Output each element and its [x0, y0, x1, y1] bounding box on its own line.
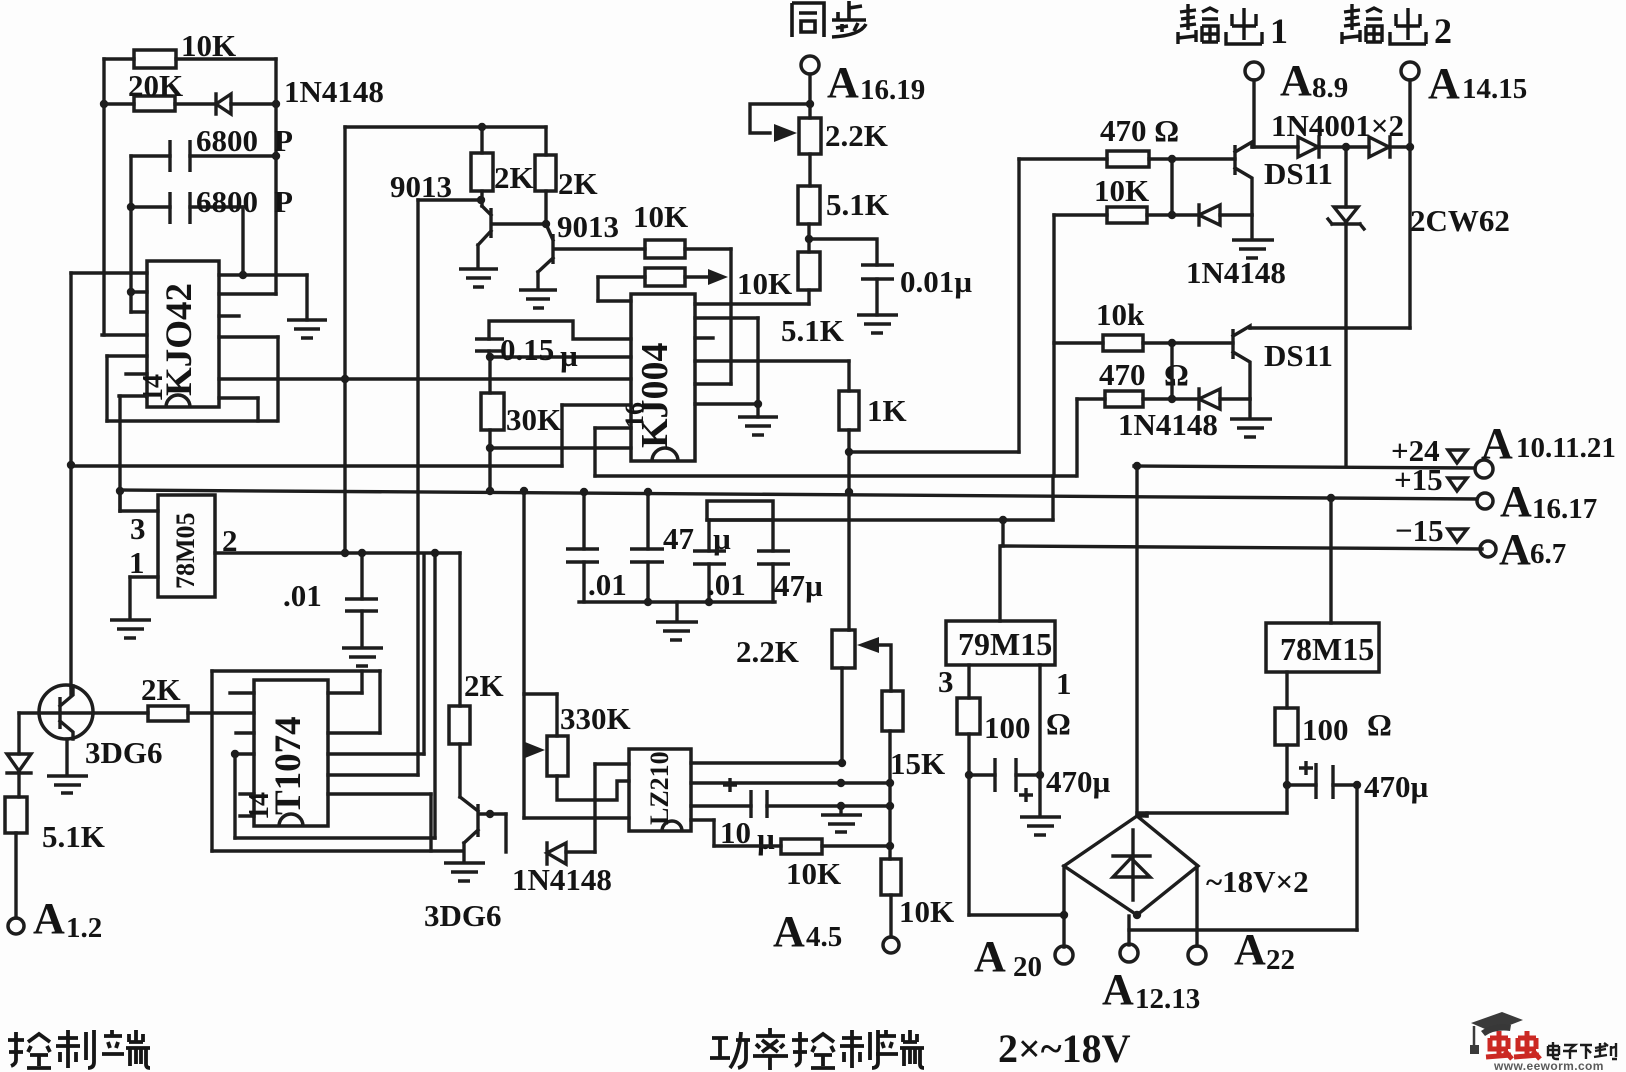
bus +15V	[120, 487, 1477, 502]
svg-text:1N4148: 1N4148	[284, 74, 384, 109]
IC U7 78M15	[1266, 499, 1379, 672]
resistor R13 15K	[882, 691, 945, 859]
svg-text:9013: 9013	[557, 209, 619, 244]
svg-text:1N4148: 1N4148	[1118, 407, 1218, 442]
label power control terminal	[710, 1028, 924, 1070]
transistor Q3 3DG6	[19, 685, 163, 775]
svg-text:DS11: DS11	[1264, 156, 1333, 191]
wire corner x1053 to row y520	[707, 476, 1053, 520]
svg-text:0.15: 0.15	[500, 332, 554, 367]
terminal sync A16.19	[801, 56, 925, 118]
svg-text:5.1K: 5.1K	[781, 313, 844, 348]
diode D2 base	[7, 713, 31, 797]
wire 78M05 pin3	[120, 491, 158, 546]
svg-text:15K: 15K	[890, 746, 945, 781]
wire cluster bottom rail	[579, 598, 775, 621]
ground LZ210 row	[821, 806, 862, 832]
ground KJ042 right	[287, 320, 327, 338]
diode D8 1N4148	[1118, 389, 1250, 442]
resistor R15 10K	[781, 839, 894, 891]
svg-text:5.1K: 5.1K	[826, 187, 889, 222]
svg-text:1: 1	[129, 545, 145, 580]
svg-text:78M15: 78M15	[1280, 631, 1374, 667]
svg-text:10K: 10K	[633, 199, 688, 234]
svg-text:A: A	[1499, 525, 1531, 574]
wire KJ042 pin row y275 right with ground stem	[219, 271, 307, 320]
svg-text:14.15: 14.15	[1462, 73, 1527, 105]
svg-text:A: A	[1428, 59, 1460, 108]
capacitor C12 470u	[1287, 761, 1429, 804]
svg-text:LZ210: LZ210	[645, 751, 674, 825]
svg-text:78M05: 78M05	[171, 512, 200, 589]
svg-text:A: A	[1500, 477, 1532, 526]
resistor R1 10K	[134, 28, 236, 68]
wire T1074 right pin y733	[328, 671, 380, 733]
svg-text:2K: 2K	[464, 668, 504, 703]
resistor R24 100	[938, 664, 1071, 779]
IC U1 KJ042	[138, 261, 219, 407]
resistor R7 5.1K	[798, 154, 889, 224]
wire KJ042 under-loop y421	[107, 419, 276, 422]
svg-text:10K: 10K	[786, 856, 841, 891]
potentiometer RP3 330K	[525, 694, 631, 800]
terminal A1.2	[8, 894, 102, 944]
wire T1074 right pin y794	[328, 794, 431, 851]
wire collector row y147	[1252, 145, 1298, 148]
wire KJ004 right pin y304 to 10K vertical	[695, 302, 809, 305]
svg-text:20K: 20K	[128, 68, 183, 103]
wire x435 down to T1074 bottom loop	[433, 553, 436, 838]
node x345 crossing KJ042-KJ004 line	[341, 375, 349, 383]
svg-text:0.01µ: 0.01µ	[900, 264, 972, 299]
resistor R23 470	[1077, 343, 1199, 407]
wire x524 branch	[524, 491, 629, 818]
ground KJ004 right	[738, 417, 778, 435]
wire x460 down to 2K	[458, 553, 461, 706]
wire Z step to -15	[999, 516, 1007, 546]
zener D7 2CW62	[1328, 147, 1510, 466]
label control terminal	[8, 1030, 150, 1068]
svg-text:2: 2	[1434, 11, 1452, 51]
wire KJ004 right pin y404 with ground	[695, 404, 758, 417]
svg-text:KJ004: KJ004	[634, 342, 676, 448]
svg-text:100: 100	[1302, 712, 1349, 747]
svg-text:2: 2	[222, 523, 238, 558]
resistor R9 10K vertical	[798, 224, 820, 304]
resistor R19 5.1K	[5, 797, 105, 918]
wire x969 down to bridge row	[969, 775, 1064, 915]
transistor Q2 9013	[538, 191, 645, 289]
wire KJ042 pin stub y316 right	[219, 314, 239, 317]
capacitor C9 0.01u	[809, 239, 972, 315]
wire drive row y476	[595, 474, 1075, 477]
diode D1 1N4148	[216, 74, 384, 114]
terminal A22	[1188, 866, 1295, 976]
ground Q6	[1230, 399, 1272, 437]
svg-text:+15: +15	[1394, 462, 1443, 497]
diode D4 1N4001	[1271, 108, 1404, 157]
svg-text:100: 100	[984, 710, 1031, 745]
transistor Q1 9013	[390, 169, 546, 268]
terminal A8.9	[1245, 56, 1348, 147]
svg-text:Ω: Ω	[1046, 706, 1071, 741]
capacitor C6 47u cluster	[630, 492, 731, 602]
IC U4 T1074	[244, 680, 328, 826]
wire T1074 right pin y775	[328, 773, 418, 776]
wire bridge top to 78M15 node	[1137, 785, 1287, 816]
diode D5 1N4001	[1369, 137, 1410, 157]
wire bottom row y851	[212, 849, 462, 852]
svg-text:Ω: Ω	[1367, 707, 1392, 742]
resistor R22 10k	[1054, 297, 1233, 351]
svg-text:47µ: 47µ	[774, 568, 823, 603]
svg-text:470: 470	[1099, 357, 1146, 392]
wire LZ210 right row2 y783	[691, 779, 894, 787]
wire KJ042 pin row y294 right	[219, 292, 276, 295]
svg-text:10K: 10K	[899, 894, 954, 929]
IC U3 78M05	[158, 495, 215, 597]
svg-text:6.7: 6.7	[1530, 538, 1566, 570]
capacitor C5 .01 cluster	[566, 492, 627, 602]
svg-text:1N4148: 1N4148	[512, 862, 612, 897]
svg-text:47: 47	[663, 521, 694, 556]
resistor R17 2K	[449, 668, 504, 744]
ground 78M05	[110, 620, 151, 638]
bus -15V	[1002, 513, 1566, 574]
logo text dianzi	[1548, 1042, 1617, 1059]
wire left vertical x104	[102, 59, 105, 335]
svg-text:10K: 10K	[737, 266, 792, 301]
resistor R2 20K	[128, 68, 183, 111]
svg-text:A: A	[1481, 419, 1513, 468]
IC U2 KJ004	[620, 294, 695, 461]
resistor R20 470	[1019, 113, 1235, 167]
svg-text:3DG6: 3DG6	[85, 735, 163, 770]
svg-text:20: 20	[1013, 951, 1042, 983]
svg-text:www.eeworm.com: www.eeworm.com	[1493, 1059, 1604, 1072]
svg-text:1N4148: 1N4148	[1186, 255, 1286, 290]
terminal A4.5	[773, 907, 899, 956]
svg-text:470µ: 470µ	[1364, 769, 1429, 804]
svg-text:~18V×2: ~18V×2	[1206, 864, 1309, 899]
capacitor C1 6800P	[131, 123, 293, 172]
svg-text:.01: .01	[588, 567, 627, 602]
svg-text:2K: 2K	[558, 166, 598, 201]
wire T1074 right pin y754	[328, 554, 424, 754]
transistor Q5 DS11	[1235, 142, 1333, 215]
resistor R18 2K base	[93, 672, 254, 721]
wire x595 drop from pin row y428 to row y476	[595, 428, 631, 476]
ground 470u	[1020, 817, 1061, 835]
svg-text:1: 1	[1056, 666, 1072, 701]
wire KJ042 pin row y398 loop	[219, 398, 258, 421]
diode D6 1N4148	[1186, 205, 1286, 290]
wire KJ004 right pin y361 to 1K	[695, 359, 849, 362]
ground Q5	[1232, 215, 1274, 258]
svg-text:P: P	[274, 123, 293, 158]
label sync tongbu	[792, 1, 866, 37]
capacitor C10 10u row3	[691, 778, 894, 856]
svg-text:1: 1	[1270, 11, 1288, 51]
svg-text:Ω: Ω	[1164, 357, 1189, 392]
svg-text:6800: 6800	[196, 184, 258, 219]
wire Q6 collector row y328	[1250, 326, 1410, 329]
bridge rectifier	[1064, 816, 1309, 919]
svg-text:16.19: 16.19	[860, 74, 925, 106]
resistor R10 30K	[481, 357, 561, 437]
wire vertical x243 cap2 to KJ042	[241, 207, 244, 275]
svg-text:A: A	[1234, 925, 1266, 974]
wire KJ004 right pin stub y338	[695, 336, 713, 339]
ground Q1	[459, 269, 498, 287]
resistor R16 10K vertical	[881, 859, 954, 937]
logo cap icon	[1470, 1012, 1523, 1054]
svg-text:µ: µ	[757, 821, 775, 856]
wire 30K bottom to KJ004 y448 and +15 bus	[486, 430, 631, 495]
svg-text:12.13: 12.13	[1135, 983, 1200, 1015]
wire right vertical x276 top	[274, 59, 277, 294]
svg-text:3: 3	[130, 511, 146, 546]
svg-text:A: A	[1280, 56, 1312, 105]
capacitor C3 0.15u	[475, 321, 631, 373]
svg-text:5.1K: 5.1K	[42, 819, 105, 854]
transistor Q4 3DG6	[424, 744, 506, 933]
wire 20K row with node	[100, 100, 216, 108]
svg-text:A: A	[827, 58, 859, 107]
wire LZ210 right row1 y763	[691, 761, 841, 764]
svg-text:2×~18V: 2×~18V	[998, 1026, 1131, 1071]
ground C4	[342, 648, 383, 666]
svg-text:2.2K: 2.2K	[736, 634, 799, 669]
svg-text:470µ: 470µ	[1046, 764, 1111, 799]
ground cluster	[656, 622, 698, 640]
wire 78M05 pin2 row y553	[215, 523, 460, 558]
terminal A12.13	[1102, 916, 1200, 1015]
wire 10K drive vertical x1054	[1052, 215, 1055, 476]
resistor R3 2K	[471, 127, 534, 195]
wire 470-2 drive vertical x1077	[1075, 399, 1078, 476]
wire x595 up to LZ210	[595, 764, 629, 852]
svg-text:2CW62: 2CW62	[1410, 203, 1510, 238]
resistor R5 10K	[633, 199, 731, 384]
svg-text:22: 22	[1266, 944, 1295, 976]
capacitor C4 .01 78M05	[283, 553, 378, 647]
svg-text:DS11: DS11	[1264, 338, 1333, 373]
wire T1074 right pin y693	[328, 671, 362, 693]
wire outer left vertical x71	[67, 273, 75, 687]
svg-text:14: 14	[138, 374, 169, 402]
capacitor C8 47u cluster	[757, 520, 823, 603]
terminal A14.15	[1401, 59, 1527, 328]
wire T1074 left loop x212	[212, 671, 380, 851]
terminal +15 A16.17	[1394, 462, 1597, 526]
svg-text:3: 3	[938, 664, 954, 699]
bus +24V right	[1133, 419, 1616, 478]
svg-text:8.9: 8.9	[1312, 72, 1348, 104]
wire x598 to KJ004 pin y301	[598, 277, 631, 301]
ground Q2	[519, 290, 557, 308]
svg-text:1.2: 1.2	[66, 912, 102, 944]
svg-text:µ: µ	[560, 338, 578, 373]
wire KJ004 right pin y318 loop	[695, 318, 762, 408]
ground Q3	[47, 776, 88, 793]
IC U5 LZ210	[629, 749, 691, 831]
wire 78M05 pin1 to ground	[129, 545, 158, 619]
svg-text:2K: 2K	[494, 160, 534, 195]
node KJ042 to KJ004 long line y379	[219, 377, 631, 380]
svg-text:10.11.21: 10.11.21	[1516, 432, 1616, 464]
svg-text:79M15: 79M15	[958, 626, 1052, 662]
svg-text:10K: 10K	[1094, 173, 1149, 208]
svg-text:4.5: 4.5	[806, 921, 842, 953]
svg-text:1N4001×2: 1N4001×2	[1271, 108, 1404, 143]
wire KJ042 pin rows y292 y312 left	[126, 292, 147, 374]
terminal A20	[974, 866, 1073, 983]
wire A22 row y930 to 78M15	[1129, 785, 1357, 930]
wire bridge top to +24	[1135, 466, 1138, 816]
svg-text:A: A	[773, 907, 805, 956]
wire 10K top row	[104, 57, 276, 60]
svg-text:16.17: 16.17	[1532, 493, 1597, 525]
capacitor C2 6800P	[127, 184, 293, 224]
logo chongchong red	[1486, 1031, 1540, 1059]
wire T1074 bottom loop y838	[235, 754, 435, 838]
svg-text:10k: 10k	[1096, 297, 1145, 332]
resistor R11 1K	[839, 361, 907, 430]
svg-text:6800: 6800	[196, 123, 258, 158]
transistor Q6 DS11	[1233, 326, 1333, 399]
IC U6 79M15	[946, 546, 1055, 665]
wire KJ004 right pin y384	[695, 382, 731, 385]
svg-text:.01: .01	[707, 567, 746, 602]
wire KJ042 pin row y335 left	[102, 333, 147, 336]
resistor R4 2K	[535, 127, 598, 201]
resistor R25 100	[1275, 672, 1392, 789]
svg-text:2.2K: 2.2K	[825, 118, 888, 153]
wire vertical x131 caps left	[129, 156, 132, 312]
wire Q1 collector tap to T1074 x418	[418, 200, 481, 775]
potentiometer RP1 2.2K	[750, 104, 888, 154]
svg-text:2K: 2K	[141, 672, 181, 707]
svg-text:P: P	[274, 184, 293, 219]
capacitor C11 470u	[969, 758, 1111, 802]
wire KJ042 pin row y337 right loop	[219, 337, 278, 421]
wire KJ004 pin y405 to line y466	[71, 405, 631, 466]
svg-text:A: A	[974, 932, 1006, 981]
svg-text:470 Ω: 470 Ω	[1100, 113, 1179, 148]
wire KJ042 pin row y356 left	[107, 356, 147, 421]
wire x120 loop to +15 bus	[116, 396, 147, 511]
wire 79M15 pin1 to ground	[1040, 665, 1072, 816]
svg-text:A: A	[33, 894, 65, 943]
resistor R21 10K	[1054, 159, 1199, 223]
svg-text:A: A	[1102, 965, 1134, 1014]
svg-text:1K: 1K	[867, 393, 907, 428]
svg-text:30K: 30K	[506, 402, 561, 437]
wire supply row y127	[345, 123, 546, 554]
wire KJ042 pin row y273 left	[71, 271, 147, 274]
diode D3 1N4148	[506, 814, 612, 897]
svg-text:−15: −15	[1395, 513, 1444, 548]
wire T1074 left pin stubs	[230, 693, 254, 816]
resistor R6 10K	[598, 266, 792, 301]
svg-text:330K: 330K	[560, 701, 631, 736]
capacitor C7 .01 cluster	[693, 501, 773, 602]
wire 1K bottom node y452	[845, 430, 1019, 630]
ground Q4	[444, 863, 485, 881]
wire LZ210 row4 to 10K	[691, 820, 781, 846]
wire 470 drive vertical x1019	[1017, 159, 1020, 452]
label output1	[1178, 4, 1262, 44]
svg-text:.01: .01	[283, 578, 322, 613]
potentiometer RP2 2.2K mid	[736, 630, 891, 767]
svg-text:3DG6: 3DG6	[424, 898, 502, 933]
ground 0.01u	[857, 315, 898, 333]
